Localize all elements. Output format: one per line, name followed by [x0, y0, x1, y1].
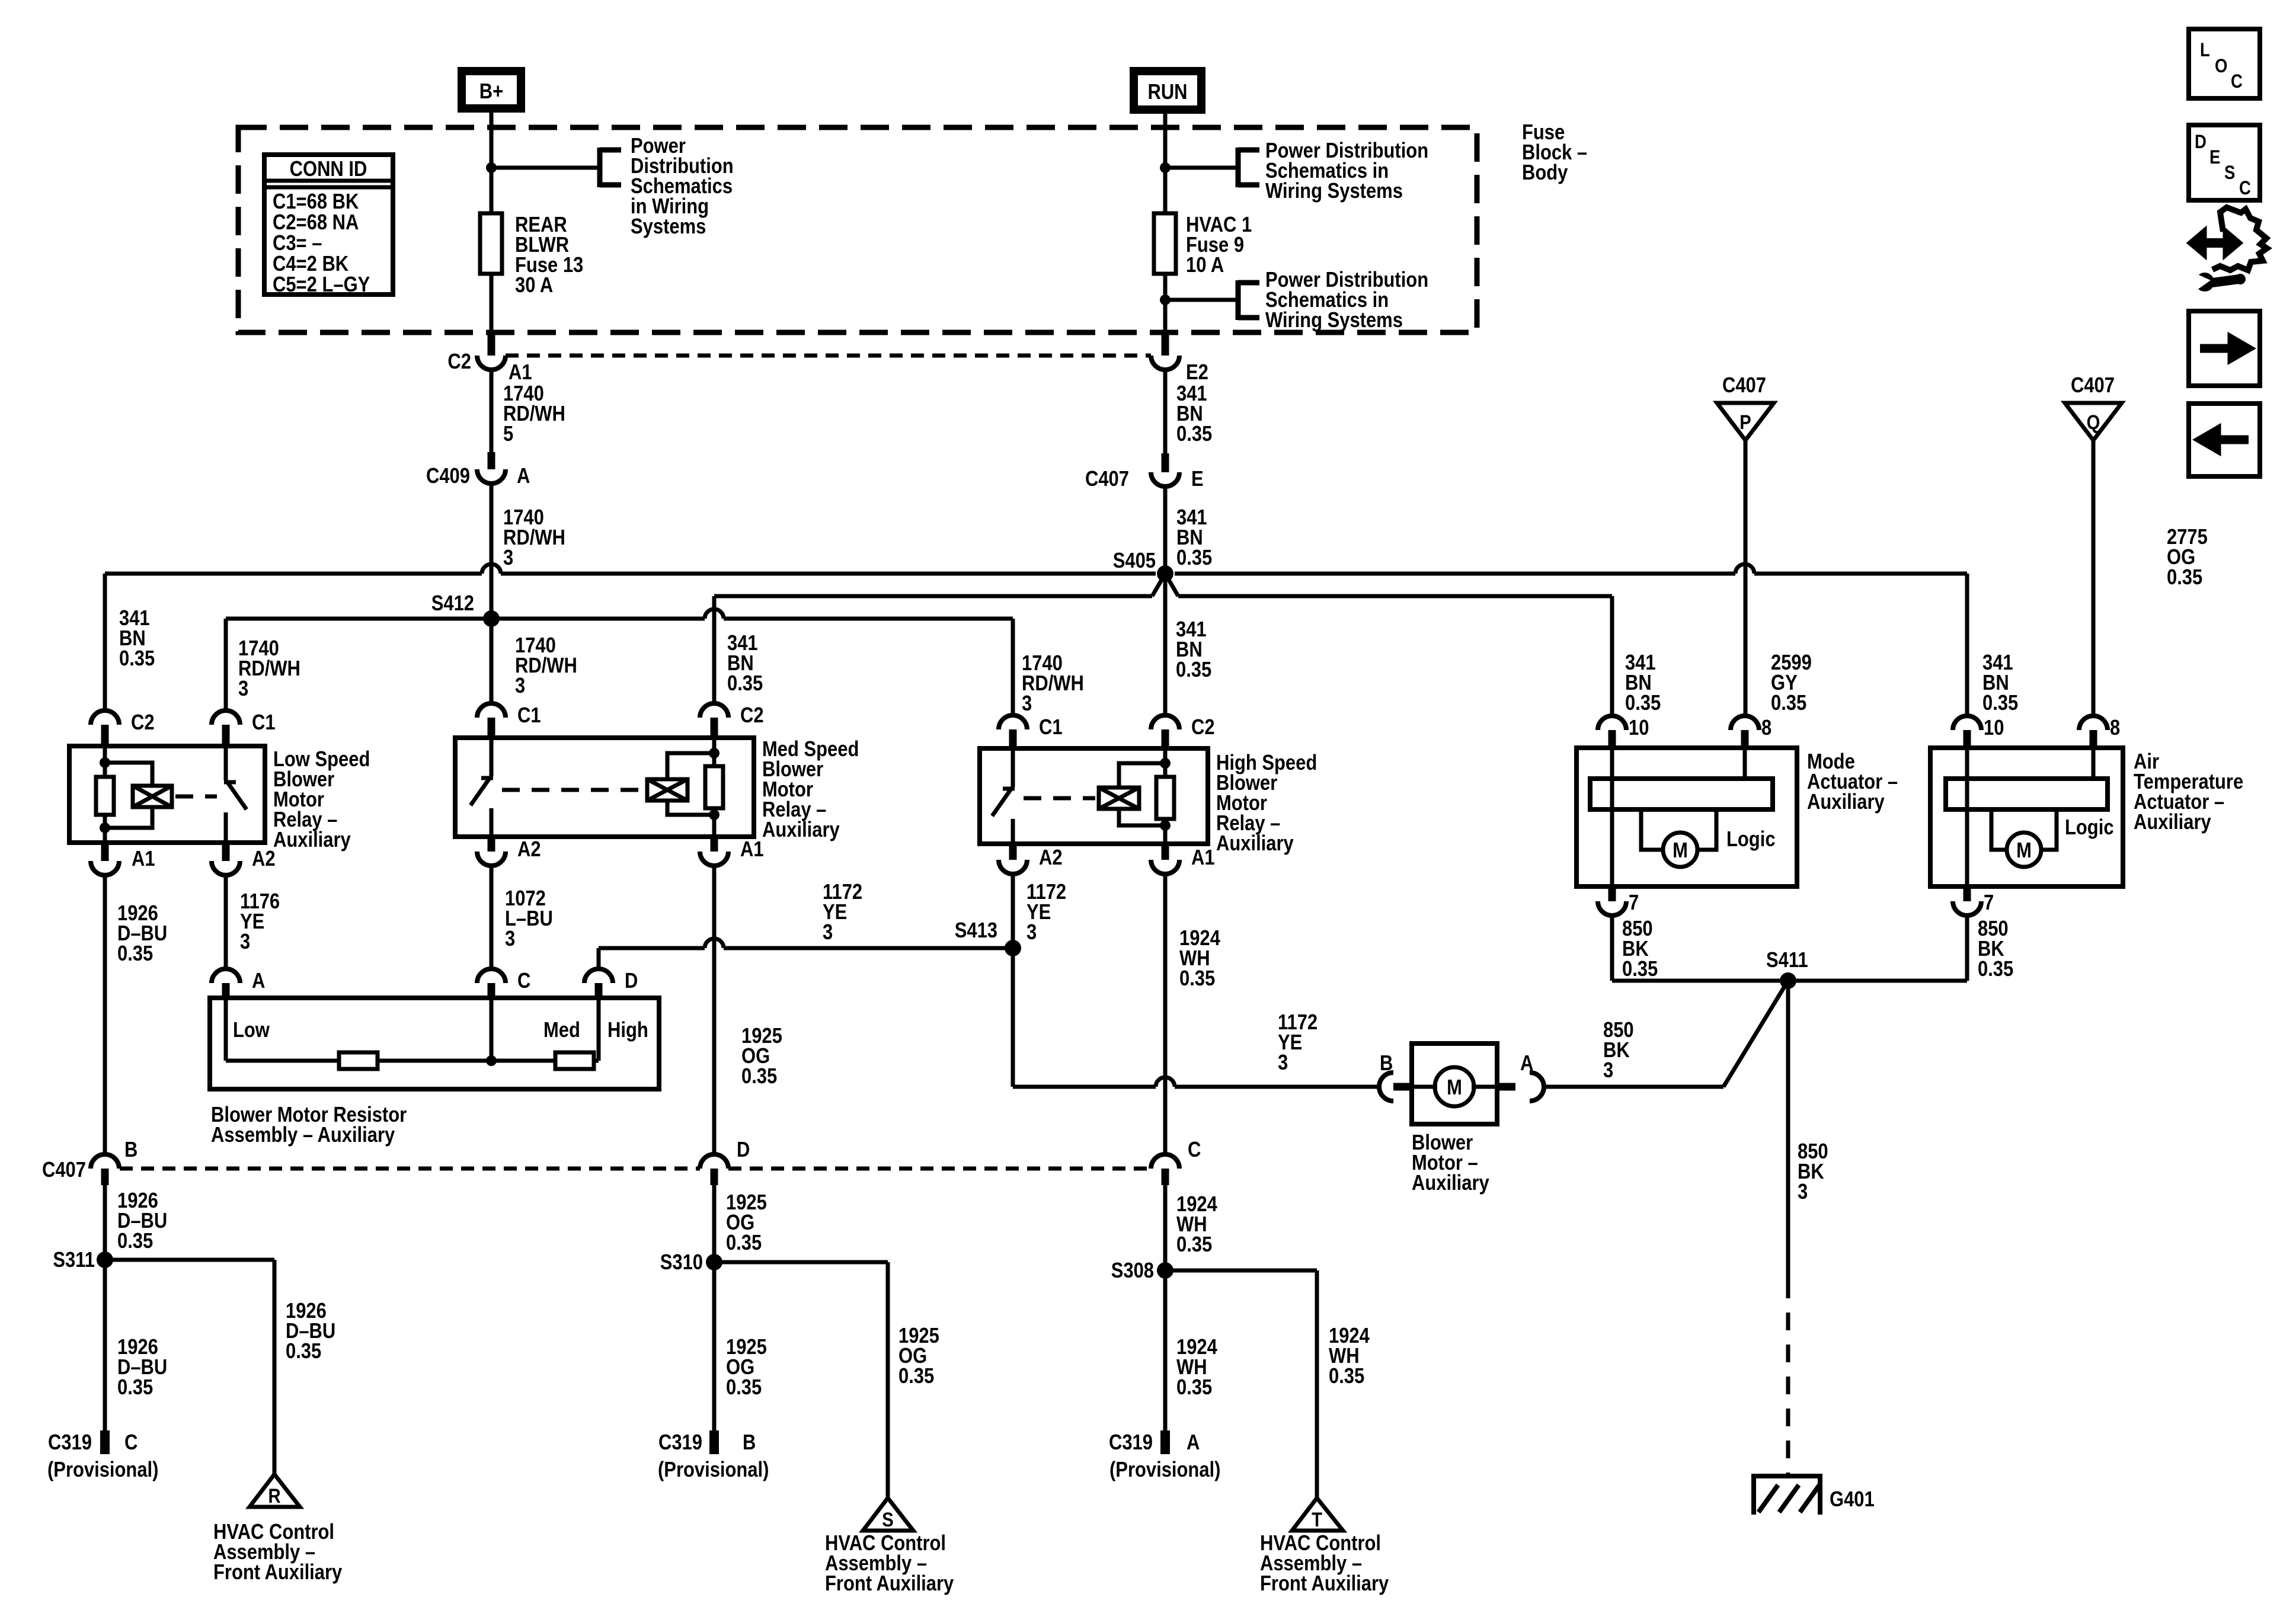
svg-text:0.35: 0.35: [2167, 566, 2202, 590]
svg-text:3: 3: [1603, 1059, 1613, 1083]
svg-text:A: A: [517, 465, 530, 488]
svg-text:A2: A2: [517, 838, 541, 862]
svg-text:Wiring Systems: Wiring Systems: [1265, 309, 1403, 332]
svg-text:(Provisional): (Provisional): [1109, 1458, 1220, 1482]
svg-text:S310: S310: [660, 1251, 703, 1275]
wire 850 BK 3 (dashed continuation): [1786, 1281, 1790, 1476]
wire 1925 OG 0.35 (C407 D to S310): [712, 1185, 717, 1262]
low relay coil parallel loop: [105, 763, 152, 828]
wire 1172 YE 3 (S413 rail to resistor D): [599, 948, 1013, 969]
svg-text:3: 3: [515, 674, 525, 698]
connector C407 pin D: [700, 1138, 750, 1185]
connector pin C (resistor assembly): [477, 969, 530, 998]
splice S405: [1113, 549, 1173, 582]
wire 1172 YE 3 (to blower motor B): [1013, 1085, 1379, 1089]
svg-text:Front Auxiliary: Front Auxiliary: [1260, 1572, 1389, 1596]
connector pin 7 (mode actuator): [1598, 886, 1639, 916]
connector pin A2 (low relay): [212, 843, 276, 875]
mode actuator pin7 internal wire: [1610, 748, 1614, 886]
label 1740 RD/WH 3 (C409): [503, 506, 565, 570]
341 BN branch (S405 to med relay C2): [714, 574, 1165, 703]
svg-text:S: S: [2224, 162, 2235, 183]
connector pin A1 (high relay): [1151, 844, 1215, 874]
wire 1924 WH 0.35 (C407 C to S308): [1163, 1185, 1168, 1270]
label 2775 OG 0.35: [2167, 526, 2208, 590]
junction in fuse block (RUN tap lower): [1160, 295, 1171, 305]
CONN ID table: [264, 155, 393, 297]
label HVAC Control Assembly - Front Auxiliary (T): [1260, 1532, 1389, 1596]
blower motor resistor assembly box: [210, 998, 659, 1089]
label 1926 D-BU 0.35 (upper): [117, 1189, 167, 1253]
reference bracket (power distribution, left): [600, 148, 621, 187]
wire 1926 D-BU 0.35 (low relay A1 down): [103, 875, 107, 1154]
wire 1740 RD/WH 5: [490, 369, 494, 452]
label 1740 RD/WH 3 (low relay C1): [238, 637, 300, 701]
low relay node (coil top): [100, 757, 110, 768]
svg-text:0.35: 0.35: [726, 1231, 762, 1255]
svg-text:R: R: [268, 1484, 280, 1507]
label 1926 D-BU 0.35 (branch): [286, 1299, 335, 1363]
svg-text:C407: C407: [1722, 374, 1766, 398]
341 BN bus wire (right arm to air temp actuator): [1175, 574, 1967, 716]
svg-text:B: B: [743, 1431, 756, 1455]
svg-text:A1: A1: [1191, 846, 1215, 870]
label 341 BN 0.35 (air 10): [1982, 651, 2018, 715]
label High (resistor tap): [607, 1019, 648, 1042]
label Logic (mode actuator): [1726, 828, 1776, 852]
icon harness routing (outline): [2212, 207, 2267, 270]
svg-text:C5=2 L–GY: C5=2 L–GY: [273, 273, 370, 297]
svg-text:O: O: [2215, 56, 2227, 76]
label Fuse Block - Body: [1522, 121, 1587, 185]
label 1172 YE 3 (A2): [1027, 881, 1066, 945]
wire 1926 D-BU 0.35 (C407 B to S311): [103, 1185, 107, 1260]
connector pin A2 (med relay): [477, 837, 541, 866]
svg-text:10: 10: [1984, 716, 2004, 740]
svg-text:3: 3: [1278, 1051, 1288, 1075]
svg-text:0.35: 0.35: [1982, 692, 2018, 715]
high relay feed wire: [1163, 748, 1168, 844]
svg-text:3: 3: [505, 927, 515, 951]
svg-text:C319: C319: [48, 1431, 92, 1455]
svg-text:0.35: 0.35: [1179, 967, 1215, 991]
air temp actuator pin7 internal wire: [1965, 748, 1969, 886]
med relay coil parallel loop: [667, 753, 714, 815]
svg-text:C407: C407: [2071, 374, 2115, 398]
connector pin C1 (low relay): [212, 710, 276, 746]
svg-text:C407: C407: [1085, 468, 1129, 491]
wire 341 BN 0.35 (C407 E to S405): [1163, 369, 1168, 453]
label 1172 YE 3 (blower): [1278, 1011, 1318, 1075]
wire 1740 RD/WH 3 (C409 to S412): [490, 484, 494, 619]
svg-text:A1: A1: [740, 838, 764, 862]
svg-text:10: 10: [1629, 716, 1649, 740]
svg-text:Front Auxiliary: Front Auxiliary: [825, 1572, 954, 1596]
mode actuator motor leads: [1641, 809, 1716, 850]
connector C2 pin A1: [447, 334, 532, 385]
svg-text:0.35: 0.35: [726, 1376, 762, 1400]
svg-text:0.35: 0.35: [1176, 422, 1212, 446]
label 341 BN 0.35 (mode 10): [1625, 651, 1661, 715]
junction in fuse block (RUN tap upper): [1160, 162, 1171, 173]
svg-text:D: D: [737, 1138, 750, 1162]
svg-text:A: A: [252, 969, 265, 993]
svg-text:D: D: [625, 969, 638, 993]
med relay actuation dashed link: [502, 788, 644, 792]
svg-text:Auxiliary: Auxiliary: [1216, 832, 1294, 856]
connector pin C1 (high relay): [999, 715, 1063, 748]
wire B+ to fuse 13: [490, 113, 494, 213]
connector pin A1 (med relay): [700, 837, 764, 866]
air temperature actuator - auxiliary box: [1930, 748, 2123, 886]
med relay feed wire: [712, 738, 717, 837]
connector pin C2 (high relay): [1151, 715, 1215, 748]
relay K (med speed blower motor relay - auxiliary) box: [455, 738, 754, 837]
low relay switch: [224, 746, 247, 843]
svg-text:E: E: [2209, 147, 2220, 168]
svg-text:7: 7: [1984, 891, 1994, 915]
hop over 1925 OG wire: [705, 939, 724, 948]
connector pin A (blower motor): [1497, 1052, 1544, 1101]
svg-text:C1: C1: [252, 711, 276, 735]
wire 1925 OG 0.35 (S310 to S): [714, 1262, 888, 1498]
svg-text:30 A: 30 A: [515, 274, 553, 297]
svg-text:0.35: 0.35: [1176, 658, 1211, 682]
label High Speed Blower Motor Relay - Auxiliary: [1216, 751, 1317, 856]
hop over 1740 RD/WH wire: [482, 564, 501, 574]
svg-text:Auxiliary: Auxiliary: [273, 828, 351, 852]
label 1926 D-BU 0.35 (lower): [117, 1336, 167, 1400]
label 1740 RD/WH 5: [503, 382, 565, 446]
svg-text:Q: Q: [2087, 411, 2100, 434]
wire 1924 WH 0.35 (high relay A1 down): [1163, 874, 1168, 1154]
label 850 BK 3 (blower): [1603, 1019, 1634, 1083]
icon DESC box: [2189, 125, 2260, 200]
svg-text:S412: S412: [431, 592, 474, 616]
connector pin 7 (air temp actuator): [1953, 886, 1994, 916]
svg-text:Med: Med: [543, 1019, 580, 1042]
svg-text:0.35: 0.35: [1622, 958, 1658, 981]
svg-text:C: C: [1188, 1138, 1201, 1162]
label Low (resistor tap): [233, 1019, 270, 1042]
svg-text:7: 7: [1629, 891, 1639, 915]
wire 1924 WH 0.35 (S308 to C319 A): [1163, 1270, 1168, 1430]
splice S412: [431, 592, 500, 627]
svg-text:C: C: [517, 969, 530, 993]
label 850 BK 0.35 (mode): [1622, 917, 1658, 981]
wire 850 BK 0.35 (air 7 to S411): [1788, 916, 1967, 981]
svg-text:A2: A2: [1039, 846, 1063, 870]
wire 1926 D-BU 0.35 (S311 to R): [105, 1260, 274, 1474]
off-page connector S (HVAC control assembly): [863, 1498, 913, 1531]
label Blower Motor - Auxiliary: [1412, 1131, 1489, 1195]
icon harness routing (wrench): [2191, 271, 2246, 292]
high relay coil parallel loop: [1119, 763, 1165, 825]
label 1740 RD/WH 3 (med relay C1): [515, 634, 577, 698]
svg-text:S308: S308: [1111, 1259, 1154, 1283]
off-page connector R (HVAC control assembly): [250, 1474, 300, 1507]
svg-text:8: 8: [1761, 716, 1771, 740]
svg-text:3: 3: [823, 921, 833, 945]
resistor (high relay suppression): [1156, 777, 1174, 819]
svg-text:Body: Body: [1522, 161, 1568, 185]
wire 1172 YE 3 (high relay A2 to S413 and blower): [1011, 874, 1015, 1087]
blower motor - auxiliary box: [1412, 1044, 1497, 1124]
label 850 BK 0.35 (air): [1978, 917, 2013, 981]
svg-text:0.35: 0.35: [1329, 1365, 1364, 1388]
wire 1072 L-BU 3 (med relay A2 to resistor C): [490, 866, 494, 969]
svg-text:0.35: 0.35: [741, 1065, 777, 1089]
hop over 1924 WH wire: [1156, 1077, 1175, 1087]
motor M (air temp actuator): [2007, 833, 2041, 867]
svg-text:8: 8: [2110, 716, 2120, 740]
svg-text:C409: C409: [426, 465, 470, 488]
wire tap to reference bracket (left): [491, 166, 600, 170]
svg-text:T: T: [1312, 1508, 1322, 1531]
off-page connector T (HVAC control assembly): [1292, 1498, 1343, 1531]
resistor assembly internal node: [486, 1055, 497, 1066]
svg-text:B: B: [124, 1138, 137, 1162]
label 1925 OG 0.35 (med A1): [741, 1025, 782, 1089]
connector pin 10 (mode actuator): [1598, 716, 1649, 748]
svg-text:0.35: 0.35: [1176, 1376, 1212, 1400]
power feed box RUN: [1134, 71, 1201, 110]
connector C407 pin E: [1085, 453, 1204, 491]
svg-text:Logic: Logic: [2065, 816, 2114, 840]
low relay actuation dashed link: [175, 795, 217, 799]
svg-text:10 A: 10 A: [1186, 254, 1224, 277]
svg-text:0.35: 0.35: [117, 1376, 153, 1400]
label 1924 WH 0.35 (lower): [1176, 1336, 1217, 1400]
connector pin C2 (low relay): [91, 710, 155, 746]
wire 1925 OG 0.35 (med relay A1 down): [712, 866, 717, 1154]
connector pin A2 (high relay): [999, 844, 1063, 874]
svg-text:C1: C1: [1039, 716, 1063, 740]
splice S310: [660, 1251, 722, 1275]
svg-text:S413: S413: [955, 919, 997, 943]
resistor element (med-high): [555, 1052, 594, 1069]
svg-text:(Provisional): (Provisional): [658, 1458, 769, 1482]
wire fuse 13 to connector C2: [490, 274, 494, 335]
label 341 BN 0.35 (med relay C2): [727, 632, 763, 696]
motor M (blower motor - auxiliary): [1435, 1067, 1474, 1106]
svg-text:B+: B+: [479, 80, 503, 104]
power feed box B+: [462, 71, 521, 108]
svg-text:RUN: RUN: [1147, 81, 1187, 104]
splice S411: [1766, 949, 1808, 989]
low relay node (coil bottom): [100, 822, 110, 833]
wire 1925 OG 0.35 (S310 to C319 B): [712, 1262, 717, 1430]
svg-text:Wiring Systems: Wiring Systems: [1265, 180, 1403, 203]
relay K (high speed blower motor relay - auxiliary) box: [980, 748, 1208, 844]
connector pin 10 (air temp actuator): [1953, 716, 2004, 748]
svg-text:C: C: [2231, 71, 2243, 92]
label 1072 L-BU 3: [505, 887, 553, 951]
svg-text:E: E: [1191, 468, 1204, 491]
relay coil (high relay): [1099, 788, 1139, 809]
resistor assembly internal wires: [226, 998, 599, 1061]
wire 850 BK 3 (S411 to G401, solid part): [1786, 981, 1790, 1281]
svg-text:Systems: Systems: [631, 215, 706, 239]
svg-text:A: A: [1520, 1052, 1533, 1076]
relay coil (med relay): [647, 779, 687, 801]
ground G401: [1751, 1476, 1875, 1515]
wire tap to reference bracket (lower right): [1165, 298, 1238, 302]
wire 850 BK 0.35 (mode 7 to S411): [1612, 916, 1788, 981]
341 BN bus wire (left arm to low relay C2): [105, 574, 1156, 710]
svg-text:0.35: 0.35: [286, 1340, 321, 1363]
med relay node (top): [709, 748, 720, 758]
svg-text:C: C: [2239, 178, 2251, 199]
svg-text:M: M: [2016, 839, 2032, 863]
label Mode Actuator - Auxiliary: [1807, 750, 1898, 814]
wire tap to reference bracket (upper right): [1165, 166, 1238, 170]
med relay node (bottom): [709, 809, 720, 820]
svg-text:C2: C2: [740, 704, 764, 728]
svg-text:Auxiliary: Auxiliary: [2134, 811, 2211, 834]
connector C319 pin B: [658, 1430, 769, 1482]
label 1172 YE 3 (S413): [823, 881, 862, 945]
svg-text:C3= –: C3= –: [273, 232, 322, 255]
connector C319 pin A: [1109, 1430, 1220, 1482]
svg-text:(Provisional): (Provisional): [47, 1458, 158, 1482]
svg-text:0.35: 0.35: [1978, 958, 2013, 981]
svg-text:Low: Low: [233, 1019, 270, 1042]
icon LOC box: [2189, 29, 2260, 98]
label 1740 RD/WH 3 (high relay C1): [1022, 652, 1084, 716]
connector pin A1 (low relay): [91, 843, 155, 875]
label HVAC Control Assembly - Front Auxiliary (R): [213, 1521, 343, 1585]
connector pin 8 (air temp actuator): [2079, 716, 2120, 748]
resistor (low relay suppression): [96, 777, 114, 815]
label 1924 WH 0.35 (branch): [1329, 1324, 1370, 1388]
svg-text:C2: C2: [447, 350, 471, 374]
relay coil (low relay): [133, 786, 172, 807]
svg-text:0.35: 0.35: [1625, 692, 1661, 715]
connector pin C2 (med relay): [700, 703, 764, 738]
svg-text:Auxiliary: Auxiliary: [762, 818, 840, 842]
wire 1926 D-BU 0.35 (S311 to C319 C): [103, 1260, 107, 1430]
motor M (mode actuator): [1663, 833, 1697, 867]
connector C319 pin C: [47, 1430, 158, 1482]
label 341 BN 0.35 (left): [119, 607, 155, 671]
svg-text:S311: S311: [53, 1249, 95, 1272]
svg-text:L: L: [2200, 40, 2210, 60]
inline connector C407 dashed line: [120, 1167, 1151, 1171]
svg-text:M: M: [1673, 839, 1688, 863]
wire 1740 RD/WH 3 (S412 rail): [226, 619, 1013, 715]
high relay switch: [992, 748, 1015, 844]
svg-text:3: 3: [1798, 1180, 1808, 1204]
svg-text:A1: A1: [132, 847, 155, 871]
svg-text:A2: A2: [252, 847, 276, 871]
hop over 341 BN branch wire: [705, 609, 724, 619]
label Logic (air temp actuator): [2065, 816, 2114, 840]
label 341 BN (E2): [1176, 382, 1212, 446]
label 341 BN 0.35 (to S405): [1176, 506, 1212, 570]
svg-text:3: 3: [1022, 692, 1032, 716]
svg-text:C1: C1: [517, 704, 541, 728]
svg-text:E2: E2: [1186, 361, 1208, 385]
resistor (med relay suppression): [705, 766, 723, 808]
relay K (low speed blower motor relay - auxiliary) box: [69, 746, 265, 843]
svg-text:0.35: 0.35: [117, 1230, 153, 1253]
svg-text:C: C: [124, 1431, 137, 1455]
svg-text:C407: C407: [42, 1158, 86, 1182]
svg-text:C2: C2: [131, 711, 155, 735]
svg-text:G401: G401: [1830, 1488, 1875, 1512]
label 1925 OG 0.35 (branch): [898, 1324, 939, 1388]
icon forward arrow box: [2189, 311, 2260, 386]
connector pin 8 (mode actuator): [1731, 716, 1771, 748]
svg-text:A: A: [1187, 1431, 1200, 1455]
svg-text:Front Auxiliary: Front Auxiliary: [213, 1561, 343, 1585]
reference bracket (power distribution, lower right): [1238, 280, 1259, 320]
mode actuator - auxiliary box: [1576, 748, 1797, 886]
junction in fuse block (B+ tap): [486, 162, 497, 173]
svg-text:C2=68 NA: C2=68 NA: [273, 211, 359, 235]
connector C407 pin B: [42, 1138, 137, 1185]
wire 2599 GY 0.35 (P to mode pin 8): [1744, 440, 1748, 716]
splice S311: [53, 1249, 113, 1272]
svg-text:S411: S411: [1766, 949, 1808, 972]
inline connector dashed line (fuse block C2-E2): [506, 354, 1151, 358]
wire 2775 OG 0.35 (Q to air pin 8): [2092, 440, 2096, 716]
note Power Distribution Schematics (left): [631, 135, 734, 239]
svg-text:S: S: [882, 1508, 893, 1531]
svg-text:3: 3: [503, 546, 513, 570]
mode actuator internal bar: [1590, 748, 1773, 809]
341 BN branch (S405 to mode actuator pin 10): [1165, 574, 1612, 716]
high relay actuation dashed link: [1024, 796, 1095, 801]
connector pin D (resistor assembly): [584, 969, 638, 998]
note Power Distribution Schematics (lower right): [1265, 268, 1428, 332]
label Air Temperature Actuator - Auxiliary: [2134, 750, 2243, 834]
wire C407 E to S405: [1163, 486, 1168, 574]
svg-text:C319: C319: [658, 1431, 702, 1455]
connector pin A (resistor assembly): [212, 969, 265, 998]
svg-text:3: 3: [240, 930, 250, 954]
label 850 BK 3 (ground): [1798, 1140, 1828, 1204]
svg-text:P: P: [1739, 411, 1751, 434]
fuse block - body dashed outline: [238, 127, 1477, 332]
reference bracket (power distribution, upper right): [1238, 148, 1259, 187]
wire 850 BK 3 (blower motor A to S411): [1544, 981, 1788, 1087]
label 341 BN 0.35 (high relay C2): [1176, 618, 1211, 682]
label Med (resistor tap): [543, 1019, 580, 1042]
label 1926 D-BU 0.35 (A1): [117, 902, 167, 966]
hop over 2599 GY wire: [1735, 564, 1754, 574]
label Low Speed Blower Motor Relay - Auxiliary: [273, 748, 370, 852]
label Blower Motor Resistor Assembly - Auxiliary: [211, 1103, 407, 1147]
resistor element (low-med): [339, 1052, 378, 1069]
svg-text:Auxiliary: Auxiliary: [1807, 790, 1885, 814]
label 1176 YE 3: [240, 890, 280, 954]
svg-text:C4=2 BK: C4=2 BK: [273, 252, 348, 276]
note Power Distribution Schematics (upper right): [1265, 139, 1428, 203]
svg-text:B: B: [1380, 1052, 1393, 1076]
svg-text:3: 3: [1027, 921, 1037, 945]
connector C409 pin A: [426, 452, 530, 488]
label 1925 OG 0.35 (upper): [726, 1191, 767, 1255]
svg-text:0.35: 0.35: [1771, 692, 1806, 715]
high relay node (top): [1160, 758, 1171, 769]
connector E2: [1151, 334, 1208, 385]
svg-text:CONN ID: CONN ID: [290, 158, 367, 181]
svg-text:S405: S405: [1113, 549, 1156, 573]
label 1924 WH 0.35 (upper): [1176, 1193, 1217, 1257]
low relay coil feed wire: [103, 746, 107, 843]
